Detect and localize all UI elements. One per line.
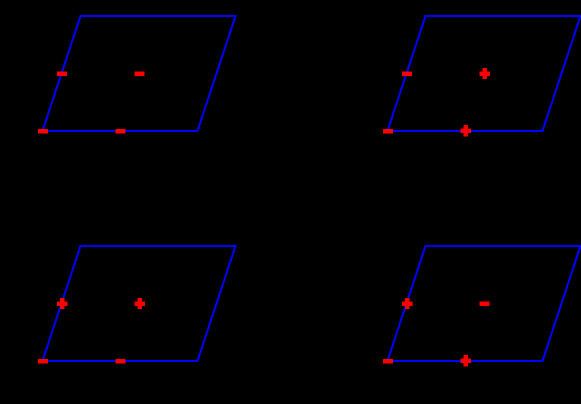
unit cell parallelogram (b) [388,16,581,131]
minus marker at corner node (c) [38,359,48,364]
minus marker at left-edge midpoint (a) [57,71,67,76]
minus marker at left-edge midpoint (b) [402,71,412,76]
unit cell parallelogram (a) [43,16,236,131]
panel (c) bottom-left [38,246,236,364]
minus marker at corner node (d) [383,359,393,364]
panel (a) top-left [38,16,236,134]
panel (b) top-right [383,16,581,136]
minus marker at corner node (a) [38,129,48,134]
minus marker at bottom-edge midpoint (c) [116,359,126,364]
unit cell parallelogram (d) [388,246,581,361]
unit cell parallelogram (c) [43,246,236,361]
plus marker at cell center (b) [479,68,490,79]
plus marker at left-edge midpoint (d) [402,298,413,309]
plus marker at bottom-edge midpoint (b) [460,125,471,136]
plus marker at left-edge midpoint (c) [57,298,68,309]
plus marker at bottom-edge midpoint (d) [460,355,471,366]
minus marker at cell center (a) [135,71,145,76]
minus marker at cell center (d) [480,301,490,306]
minus marker at bottom-edge midpoint (a) [116,129,126,134]
plus marker at cell center (c) [134,298,145,309]
minus marker at corner node (b) [383,129,393,134]
panel (d) bottom-right [383,246,581,366]
